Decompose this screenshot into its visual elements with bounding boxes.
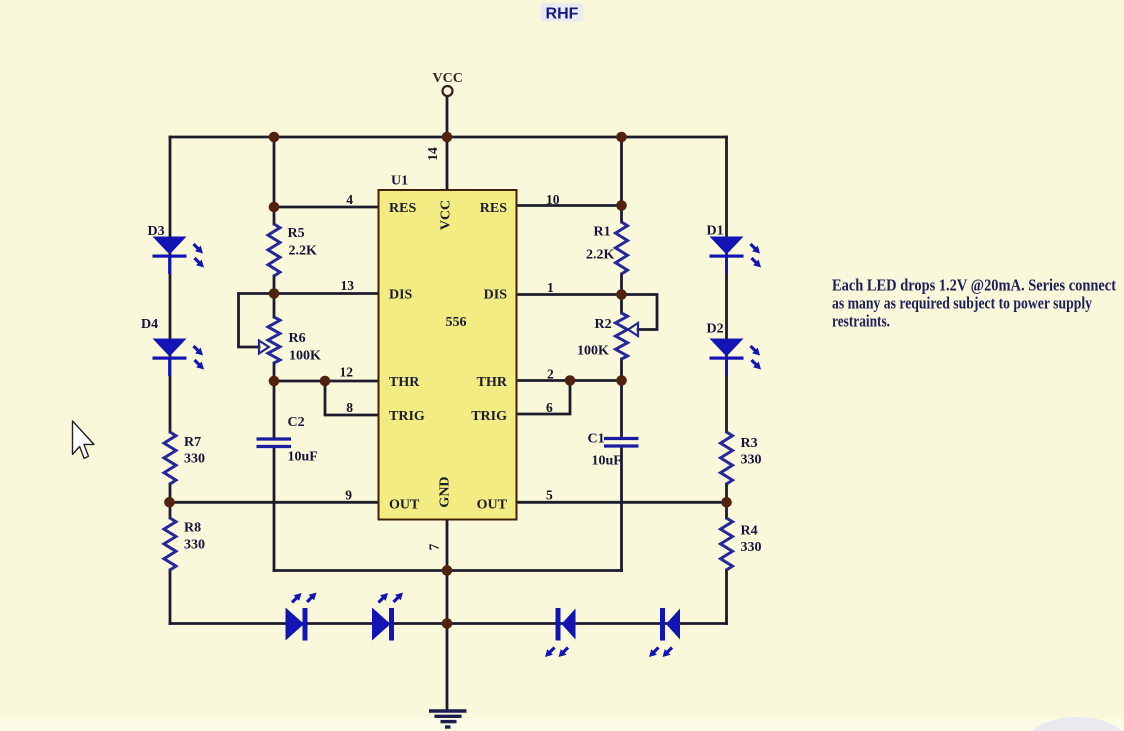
svg-text:R7: R7 [184, 435, 201, 450]
svg-text:13: 13 [341, 278, 355, 293]
svg-text:restraints.: restraints. [832, 312, 890, 331]
svg-text:RHF: RHF [546, 6, 579, 23]
svg-text:556: 556 [446, 315, 467, 330]
svg-text:VCC: VCC [433, 71, 463, 86]
svg-text:as many as required subject to: as many as required subject to power sup… [832, 294, 1093, 313]
svg-text:8: 8 [346, 400, 353, 415]
svg-text:DIS: DIS [484, 288, 508, 303]
svg-text:100K: 100K [289, 349, 321, 364]
svg-text:C1: C1 [588, 432, 605, 447]
svg-text:TRIG: TRIG [471, 409, 507, 424]
svg-text:10uF: 10uF [592, 454, 622, 469]
svg-text:100K: 100K [577, 344, 609, 359]
svg-text:D2: D2 [707, 322, 724, 337]
svg-text:4: 4 [346, 192, 353, 207]
svg-text:2.2K: 2.2K [289, 244, 318, 259]
svg-text:R6: R6 [289, 331, 306, 346]
svg-text:OUT: OUT [477, 498, 508, 513]
svg-text:10: 10 [546, 192, 560, 207]
svg-text:D3: D3 [148, 224, 165, 239]
svg-text:10uF: 10uF [288, 450, 318, 465]
svg-text:R8: R8 [184, 521, 201, 536]
svg-text:2: 2 [547, 367, 554, 382]
svg-text:D1: D1 [707, 224, 724, 239]
svg-text:DIS: DIS [389, 288, 413, 303]
svg-text:12: 12 [340, 365, 354, 380]
svg-text:VCC: VCC [439, 200, 454, 230]
svg-text:5: 5 [546, 488, 553, 503]
svg-text:R5: R5 [288, 226, 305, 241]
svg-text:1: 1 [547, 280, 554, 295]
svg-text:9: 9 [345, 488, 352, 503]
svg-text:THR: THR [389, 375, 420, 390]
svg-text:THR: THR [477, 375, 508, 390]
svg-text:330: 330 [184, 538, 205, 553]
svg-text:U1: U1 [391, 174, 408, 189]
svg-text:TRIG: TRIG [389, 409, 425, 424]
svg-text:330: 330 [184, 452, 205, 467]
svg-text:R3: R3 [741, 436, 758, 451]
svg-text:R4: R4 [741, 524, 758, 539]
svg-text:330: 330 [741, 453, 762, 468]
svg-text:RES: RES [389, 201, 416, 216]
svg-text:330: 330 [741, 540, 762, 555]
svg-text:RES: RES [480, 201, 507, 216]
svg-text:GND: GND [438, 476, 453, 507]
svg-text:D4: D4 [141, 317, 158, 332]
svg-text:7: 7 [427, 543, 442, 550]
svg-text:C2: C2 [288, 415, 305, 430]
svg-text:R2: R2 [595, 317, 612, 332]
svg-text:6: 6 [546, 400, 553, 415]
svg-text:14: 14 [425, 147, 440, 161]
svg-text:2.2K: 2.2K [586, 248, 615, 263]
svg-text:OUT: OUT [389, 498, 420, 513]
svg-text:R1: R1 [594, 225, 611, 240]
svg-text:Each LED drops 1.2V @20mA. Se: Each LED drops 1.2V @20mA. Series connec… [832, 276, 1116, 295]
